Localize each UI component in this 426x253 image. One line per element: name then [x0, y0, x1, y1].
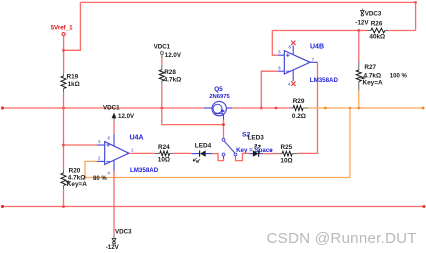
wire R28 to rail: [161, 84, 163, 108]
power stub U4B top with X: [291, 41, 295, 55]
svg-text:Q5: Q5: [214, 86, 223, 93]
wire U4B output stub: [310, 61, 318, 63]
wire right drop: [415, 2, 417, 30]
wire Q5 to R29: [232, 107, 289, 109]
wire R26 left from node: [359, 30, 367, 32]
power stub U4A bottom: [113, 160, 115, 171]
svg-text:R24: R24: [158, 144, 170, 151]
wire U4B noninverting drop: [272, 31, 278, 56]
resistor R19: [61, 73, 66, 92]
wire orange U4A inverting branch: [85, 161, 97, 177]
junction R26 R27 node: [357, 29, 360, 32]
potentiometer R27: [356, 61, 365, 91]
wire U4B output down to R25: [297, 62, 317, 153]
terminal 5Vref_1: [62, 33, 65, 36]
svg-text:40kΩ: 40kΩ: [369, 34, 385, 41]
resistor R25: [278, 151, 297, 156]
svg-text:LED4: LED4: [195, 142, 212, 149]
LED LED3: [249, 144, 262, 156]
junction dots on rail: [62, 107, 65, 110]
wire R26 right to corner: [388, 30, 415, 32]
wire to U4A noninverting: [64, 144, 97, 146]
junction 5Vref branch: [62, 49, 65, 52]
wire U4A input stubs: [97, 144, 105, 146]
resistor R26: [367, 28, 388, 33]
wire top horizontal to U4B+: [272, 30, 359, 32]
wire R19 down to R20: [63, 92, 65, 170]
svg-text:4.7kΩ: 4.7kΩ: [164, 76, 182, 83]
wire main rail left red: [3, 107, 205, 109]
svg-text:10Ω: 10Ω: [158, 156, 170, 163]
svg-text:1kΩ: 1kΩ: [68, 81, 80, 88]
power stub U4B bottom with X: [291, 70, 295, 86]
LED LED4: [191, 150, 212, 162]
wire orange wiper run: [85, 177, 350, 179]
svg-text:-12V: -12V: [106, 244, 120, 251]
wire R28 node to Q5 base: [162, 108, 224, 125]
wire bottom rail: [3, 206, 425, 208]
op-amp U4A: [105, 142, 129, 165]
power VDC1 R28: [160, 52, 163, 55]
wire U4B input stubs: [278, 54, 285, 56]
svg-text:0.2Ω: 0.2Ω: [292, 113, 306, 120]
svg-text:80 %: 80 %: [93, 176, 107, 182]
svg-text:VDC1: VDC1: [103, 104, 120, 111]
svg-text:R25: R25: [281, 144, 293, 151]
svg-text:R29: R29: [293, 98, 305, 105]
power VDC3 U4A: [112, 235, 116, 244]
svg-text:R27: R27: [364, 64, 376, 71]
wire 5Vref down: [63, 36, 65, 74]
svg-text:12.0V: 12.0V: [118, 113, 135, 120]
junction U4B inv on rail: [260, 107, 263, 110]
resistor R29: [289, 106, 308, 111]
resistor R28: [159, 65, 164, 85]
svg-text:LM358AD: LM358AD: [130, 167, 159, 174]
svg-text:U4B: U4B: [310, 43, 324, 50]
power VDC1 U4A: [112, 113, 117, 122]
svg-text:12.0V: 12.0V: [165, 52, 182, 59]
wire VDC1 to R28: [161, 55, 163, 59]
wire R20 to bottom rail: [63, 189, 65, 206]
wire R27 bottom orange: [358, 91, 360, 109]
power stub U4A top: [113, 134, 115, 146]
power VDC3 top: [361, 9, 365, 17]
wire LED3 to R25: [263, 153, 279, 155]
wire Q5 bottom to S2: [223, 120, 225, 139]
wire R24 to LED4: [174, 152, 192, 154]
transistor Q5: [204, 101, 232, 119]
switch S2: [222, 138, 237, 158]
svg-text:VDC3: VDC3: [115, 228, 132, 235]
svg-text:VDC3: VDC3: [365, 11, 382, 18]
svg-text:100 %: 100 %: [390, 73, 408, 79]
potentiometer R20: [61, 170, 71, 190]
svg-text:LM358AD: LM358AD: [310, 77, 339, 84]
svg-text:Key=A: Key=A: [67, 181, 87, 188]
wire main rail orange: [308, 107, 423, 109]
wire R27 top: [358, 31, 360, 62]
resistor R24: [155, 151, 174, 156]
svg-text:VDC1: VDC1: [154, 43, 171, 50]
svg-text:2N6975: 2N6975: [209, 94, 230, 100]
wire U4B inverting to rail: [261, 71, 278, 108]
svg-text:10Ω: 10Ω: [280, 157, 292, 164]
pin dot: [270, 150, 272, 152]
svg-text:LED3: LED3: [248, 135, 265, 142]
junction Q5 base: [222, 123, 225, 126]
svg-text:4.7kΩ: 4.7kΩ: [364, 72, 382, 79]
svg-text:5Vref_1: 5Vref_1: [51, 24, 74, 31]
wire U4A output: [129, 152, 155, 154]
wire branch to top rail: [64, 2, 81, 50]
wire S2 right staple to LED3: [236, 153, 250, 160]
svg-text:U4A: U4A: [130, 134, 144, 141]
wire orange up to rail: [349, 108, 351, 178]
svg-text:-12V: -12V: [355, 19, 369, 26]
svg-text:R28: R28: [164, 69, 176, 76]
svg-text:CSDN @Runner.DUT: CSDN @Runner.DUT: [267, 230, 417, 247]
junction U4A+ node: [62, 144, 65, 147]
svg-text:R26: R26: [371, 20, 383, 27]
wire LED4 to S2 staple: [212, 154, 224, 161]
svg-text:R19: R19: [67, 74, 79, 81]
wire top feedback rail: [80, 1, 415, 3]
svg-text:Key=A: Key=A: [363, 79, 383, 86]
op-amp U4B: [284, 51, 310, 74]
